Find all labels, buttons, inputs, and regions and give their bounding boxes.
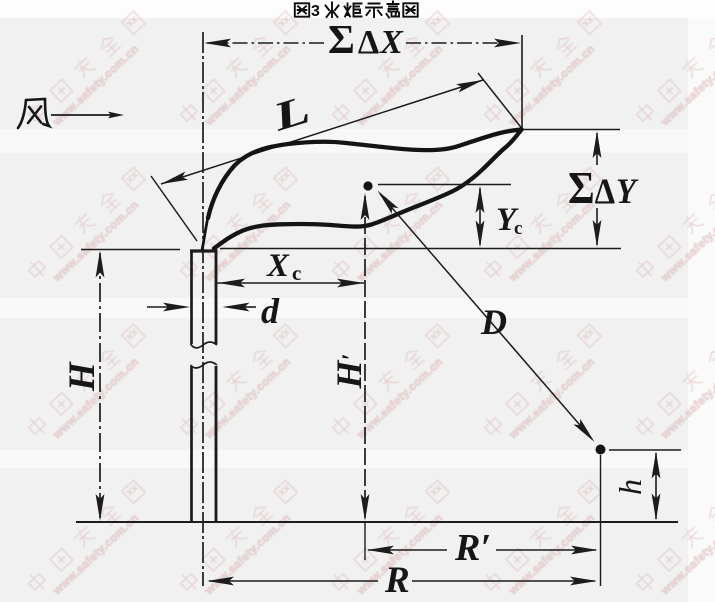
flame lower curve (214, 130, 522, 249)
svg-text:c: c (514, 218, 522, 239)
arrow Yc up (476, 186, 485, 213)
svg-text:D: D (480, 302, 507, 342)
arrow D up (378, 191, 399, 214)
oblique stroke L left (151, 176, 197, 241)
arrow D down (574, 419, 595, 442)
svg-text:h: h (612, 479, 648, 495)
svg-text:3: 3 (311, 3, 320, 20)
arrow R right (570, 577, 597, 586)
arrow Xc left (218, 279, 245, 288)
dimension d left (147, 306, 170, 308)
dimension line R (209, 580, 378, 582)
stack break upper (191, 342, 218, 348)
light band 3 (0, 450, 715, 468)
tip level line (523, 129, 620, 131)
stack wall left lower (190, 366, 193, 521)
svg-text:c: c (292, 261, 301, 285)
arrow SigmaDX right (494, 39, 521, 48)
wind arrow (51, 114, 112, 116)
arrow SigmaDY up (593, 131, 602, 158)
tip extension line (521, 35, 523, 129)
arrow Yc down (476, 221, 485, 248)
arrow h down (652, 494, 661, 521)
flame root stroke (202, 217, 208, 250)
stack wall left upper (190, 251, 193, 344)
dimension line L (161, 80, 483, 184)
arrow H up (96, 251, 105, 278)
arrow h up (652, 452, 661, 479)
dimension Hp stem (364, 196, 366, 518)
dimension line D (380, 194, 592, 439)
stack top level line (81, 249, 180, 251)
arrow Hp down (361, 494, 370, 521)
svg-text:R: R (384, 560, 410, 601)
svg-text:H: H (62, 361, 103, 392)
stack break lower (191, 362, 218, 368)
arrow SigmaDY down (593, 220, 602, 247)
dot level line right (609, 449, 681, 451)
dimension Yc stem (479, 188, 481, 245)
Hp extension below ground (364, 522, 366, 560)
right margin (688, 18, 715, 602)
dimension d right (223, 303, 250, 312)
svg-text:ΣΔY: ΣΔY (568, 163, 639, 213)
dimension SigmaDY stem (596, 133, 598, 165)
dimension line Xc (217, 282, 364, 284)
oblique stroke L right (478, 73, 522, 128)
ground line (76, 521, 678, 523)
dimension H stem (99, 253, 101, 518)
arrow R left (207, 577, 234, 586)
dimension h stem (655, 453, 657, 519)
svg-text:R′: R′ (454, 527, 491, 569)
wind label 风 (18, 99, 49, 128)
arrow Hp up (361, 193, 370, 220)
stack mouth (190, 249, 218, 252)
svg-text:X: X (266, 248, 290, 284)
title strip (0, 0, 715, 18)
arrow H down (96, 494, 105, 521)
title glyphs 图3 火炬示意图 (295, 2, 418, 18)
arrow Rp left (367, 546, 394, 555)
flame upper curve (208, 130, 522, 219)
dimension line Rp (368, 549, 447, 551)
dimension line SigmaDX (207, 42, 324, 44)
arrow L left (161, 172, 188, 185)
stack wall right lower (215, 366, 218, 521)
light band 2 (0, 298, 715, 318)
arrow Xc right (337, 279, 364, 288)
ground point dot (596, 445, 606, 455)
stack centerline (202, 32, 204, 586)
svg-text:d: d (261, 291, 280, 331)
arrow SigmaDX left (204, 39, 231, 48)
ground point extension (600, 455, 602, 586)
stack wall right upper (215, 251, 218, 344)
arrow L right (456, 80, 483, 93)
arrow Rp right (571, 546, 598, 555)
flame centre dot (363, 181, 372, 190)
dot level line (378, 184, 511, 186)
light band 1 (0, 129, 715, 153)
